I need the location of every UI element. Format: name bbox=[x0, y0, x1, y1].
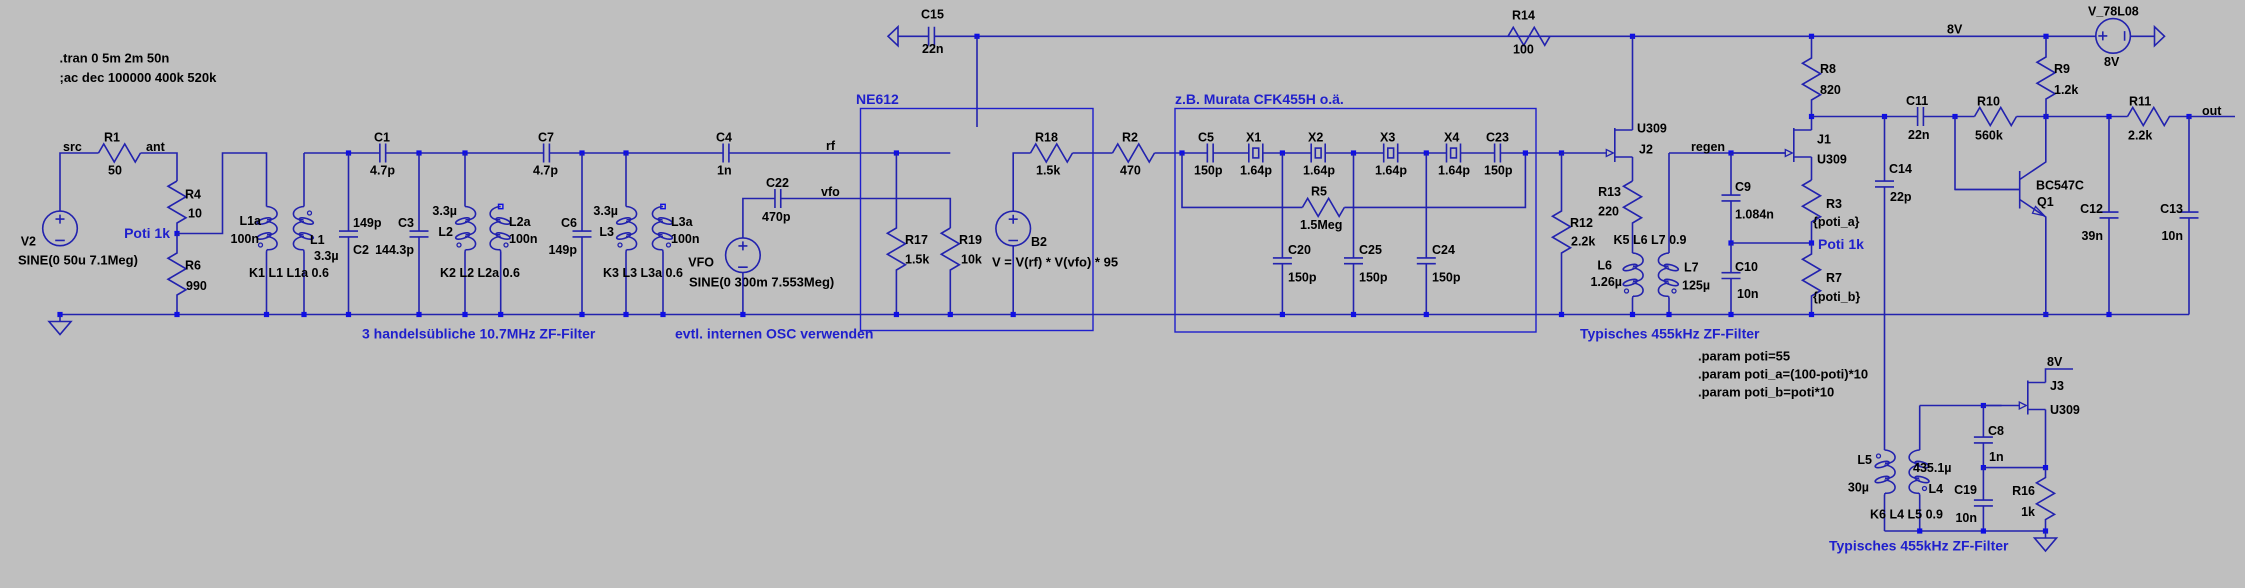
capacitor C2 bbox=[346, 150, 351, 155]
capacitor C6 bbox=[579, 150, 584, 155]
svg-text:C20: C20 bbox=[1288, 243, 1311, 257]
capacitor C12 bbox=[2100, 117, 2119, 315]
wire B2 bottom to rail bbox=[1012, 246, 1014, 315]
svg-text:C4: C4 bbox=[716, 131, 732, 145]
svg-text:1.26µ: 1.26µ bbox=[1590, 275, 1622, 289]
resistor R18 bbox=[1031, 144, 1073, 162]
svg-text:990: 990 bbox=[186, 279, 207, 293]
svg-text:C15: C15 bbox=[921, 8, 944, 22]
capacitor C10 bbox=[1722, 243, 1741, 315]
svg-text:39n: 39n bbox=[2081, 229, 2103, 243]
node junction ground rail bbox=[1630, 312, 1635, 317]
svg-text:J3: J3 bbox=[2050, 379, 2064, 393]
svg-text:B2: B2 bbox=[1031, 235, 1047, 249]
wire J3 source to R16 bbox=[2045, 410, 2047, 468]
svg-text:C5: C5 bbox=[1198, 131, 1214, 145]
node junction ground rail bbox=[1351, 312, 1356, 317]
capacitor C5 bbox=[1207, 144, 1213, 163]
node junction C20 bbox=[1280, 150, 1285, 155]
wire out bbox=[2189, 116, 2235, 118]
node junction C8 top bbox=[1981, 403, 1986, 408]
svg-text:L1: L1 bbox=[310, 233, 325, 247]
svg-text:{poti_a}: {poti_a} bbox=[1813, 215, 1860, 229]
svg-text:K2 L2 L2a 0.6: K2 L2 L2a 0.6 bbox=[440, 266, 520, 280]
svg-text:out: out bbox=[2202, 104, 2222, 118]
svg-text:L3a: L3a bbox=[671, 215, 694, 229]
resistor R19 bbox=[941, 228, 959, 315]
svg-text:R10: R10 bbox=[1977, 95, 2000, 109]
transistor Q1 BC547C bbox=[1955, 117, 2046, 315]
svg-text:8V: 8V bbox=[2104, 55, 2120, 69]
capacitor C14 bbox=[1875, 117, 1894, 451]
svg-text:150p: 150p bbox=[1484, 164, 1513, 178]
svg-text:X3: X3 bbox=[1380, 131, 1395, 145]
svg-text:R3: R3 bbox=[1826, 197, 1842, 211]
node junction filter input bbox=[1179, 150, 1184, 155]
svg-text:1n: 1n bbox=[1989, 450, 2004, 464]
svg-text:K5 L6 L7 0.9: K5 L6 L7 0.9 bbox=[1614, 233, 1687, 247]
svg-text:{poti_b}: {poti_b} bbox=[1813, 290, 1860, 304]
wire X2 to X3 bbox=[1325, 152, 1384, 154]
svg-text:C19: C19 bbox=[1954, 483, 1977, 497]
inductor L2a bbox=[499, 204, 503, 208]
net port arrow right of V_78L08 bbox=[2155, 27, 2165, 46]
capacitor C4 bbox=[723, 144, 729, 163]
inductor L1a bbox=[267, 207, 278, 252]
wire X4 to C23 bbox=[1461, 152, 1495, 154]
node junction R3/R7/Poti bbox=[1809, 240, 1814, 245]
voltage source VFO bbox=[726, 238, 761, 273]
wire L4 top to J3 gate bbox=[1920, 405, 2002, 407]
svg-text:X2: X2 bbox=[1308, 131, 1323, 145]
node junction ground rail bbox=[416, 312, 421, 317]
capacitor C20 bbox=[1273, 153, 1292, 315]
svg-text:K3 L3 L3a 0.6: K3 L3 L3a 0.6 bbox=[603, 266, 683, 280]
svg-text:1.084n: 1.084n bbox=[1735, 208, 1774, 222]
node junction C9/regen bbox=[1728, 150, 1733, 155]
svg-text:V2: V2 bbox=[21, 235, 36, 249]
svg-text:10n: 10n bbox=[1955, 511, 1977, 525]
wire R10 to R11 bbox=[2017, 116, 2128, 118]
svg-text:C25: C25 bbox=[1359, 243, 1382, 257]
svg-text:Poti 1k: Poti 1k bbox=[1818, 236, 1864, 252]
svg-text:100n: 100n bbox=[509, 232, 538, 246]
svg-text:L3: L3 bbox=[599, 225, 614, 239]
svg-text:1.5k: 1.5k bbox=[905, 253, 929, 267]
svg-text:C22: C22 bbox=[766, 176, 789, 190]
svg-text:C2: C2 bbox=[353, 243, 369, 257]
wire feedback left drop bbox=[1182, 153, 1302, 207]
svg-text:J1: J1 bbox=[1817, 133, 1831, 147]
wire bottom filter rail bbox=[1885, 530, 2046, 532]
svg-text:SINE(0 50u 7.1Meg): SINE(0 50u 7.1Meg) bbox=[18, 253, 138, 268]
node junction ground rail bbox=[301, 312, 306, 317]
inductor L6 bbox=[1633, 253, 1644, 298]
svg-text:V_78L08: V_78L08 bbox=[2088, 5, 2139, 19]
node junction R12 bbox=[1559, 150, 1564, 155]
svg-text:100n: 100n bbox=[231, 232, 260, 246]
svg-text:3.3µ: 3.3µ bbox=[593, 204, 618, 218]
node junction R17/rf bbox=[894, 150, 899, 155]
node junction ground rail bbox=[1666, 312, 1671, 317]
svg-text:R13: R13 bbox=[1598, 185, 1621, 199]
wire J2 source to R13 bbox=[1632, 157, 1634, 181]
svg-text:8V: 8V bbox=[2047, 355, 2063, 369]
wire Poti node to L1a top bbox=[177, 153, 267, 234]
svg-text:1.64p: 1.64p bbox=[1375, 164, 1407, 178]
resistor R10 bbox=[1975, 108, 2017, 126]
svg-text:R5: R5 bbox=[1311, 185, 1327, 199]
svg-text:1.2k: 1.2k bbox=[2054, 83, 2078, 97]
inductor L3a bbox=[661, 204, 665, 208]
wire C5 to X1 bbox=[1213, 152, 1249, 154]
svg-text:C7: C7 bbox=[538, 131, 554, 145]
svg-text:150p: 150p bbox=[1288, 271, 1317, 285]
svg-text:C11: C11 bbox=[1906, 94, 1928, 108]
node junction ground rail bbox=[1559, 312, 1564, 317]
svg-text:L1a: L1a bbox=[239, 214, 262, 228]
svg-text:C1: C1 bbox=[374, 131, 390, 145]
wire vfo line bbox=[781, 199, 951, 229]
node junction R9/R10/Q1 collector bbox=[2043, 114, 2048, 119]
node junction ground rail bbox=[57, 312, 62, 317]
node junction Q1 emitter/rail bbox=[2043, 312, 2048, 317]
wire regen line bbox=[1669, 152, 1786, 154]
node junction ground rail bbox=[948, 312, 953, 317]
svg-text:U309: U309 bbox=[2050, 403, 2080, 417]
svg-text:K1 L1 L1a 0.6: K1 L1 L1a 0.6 bbox=[249, 266, 329, 280]
capacitor C13 bbox=[2180, 117, 2199, 315]
svg-text:R11: R11 bbox=[2129, 95, 2151, 109]
svg-text:Typisches 455kHz ZF-Filter: Typisches 455kHz ZF-Filter bbox=[1829, 538, 2009, 554]
svg-text:100: 100 bbox=[1513, 43, 1534, 57]
svg-text:R9: R9 bbox=[2054, 62, 2070, 76]
node junction out bbox=[2186, 114, 2191, 119]
svg-text:3.3µ: 3.3µ bbox=[432, 204, 457, 218]
svg-text:144.3p: 144.3p bbox=[375, 243, 414, 257]
svg-text:R14: R14 bbox=[1512, 9, 1535, 23]
crystal X4 bbox=[1447, 144, 1461, 163]
resistor R7 bbox=[1803, 243, 1821, 315]
wire J2 drain up bbox=[1632, 36, 1634, 130]
resistor R5 bbox=[1302, 198, 1344, 216]
svg-text:1k: 1k bbox=[2021, 505, 2035, 519]
wire C7 to C4 bbox=[549, 152, 723, 154]
svg-text:C10: C10 bbox=[1735, 260, 1758, 274]
wire X3 to X4 bbox=[1398, 152, 1447, 154]
svg-text:Typisches 455kHz ZF-Filter: Typisches 455kHz ZF-Filter bbox=[1580, 326, 1760, 342]
svg-text:R7: R7 bbox=[1826, 271, 1842, 285]
svg-text:NE612: NE612 bbox=[856, 91, 899, 107]
inductor L2 bbox=[462, 150, 467, 155]
svg-text:100n: 100n bbox=[671, 232, 700, 246]
svg-text:R19: R19 bbox=[959, 233, 982, 247]
svg-text:150p: 150p bbox=[1359, 271, 1388, 285]
capacitor C9 bbox=[1722, 153, 1741, 243]
inductor L7 bbox=[1668, 153, 1670, 253]
ground symbol bottom filter bbox=[2045, 531, 2047, 538]
node junction L4 bottom bbox=[1917, 528, 1922, 533]
wire C11 to R10 bbox=[1923, 116, 1974, 118]
node junction C24 bbox=[1424, 150, 1429, 155]
wire V2 to R1 bbox=[60, 153, 99, 211]
transistor J3 U309 bbox=[2027, 381, 2029, 415]
wire J1 drain up bbox=[1811, 117, 1813, 131]
resistor R8 bbox=[1803, 36, 1821, 116]
node junction ground rail bbox=[1809, 312, 1814, 317]
svg-text:C3: C3 bbox=[398, 216, 414, 230]
svg-text:K6 L4 L5 0.9: K6 L4 L5 0.9 bbox=[1870, 508, 1943, 522]
wire C15 branch down to NE612 bbox=[976, 36, 978, 127]
node junction C14 bbox=[1882, 114, 1887, 119]
wire C1 to C7 bbox=[386, 152, 544, 154]
svg-text:470p: 470p bbox=[762, 210, 791, 224]
node junction C25 bbox=[1351, 150, 1356, 155]
wire C4 to rf end bbox=[729, 152, 950, 154]
node junction ground rail bbox=[1280, 312, 1285, 317]
node junction ground rail bbox=[174, 312, 179, 317]
svg-text:149p: 149p bbox=[549, 243, 578, 257]
svg-text:V = V(rf) * V(vfo) * 95: V = V(rf) * V(vfo) * 95 bbox=[992, 255, 1118, 270]
svg-text:;ac dec 100000 400k 520k: ;ac dec 100000 400k 520k bbox=[60, 70, 218, 85]
wire main row L1 to C1 bbox=[304, 152, 380, 154]
wire C23 to output node bbox=[1500, 152, 1561, 154]
svg-text:150p: 150p bbox=[1432, 271, 1461, 285]
node junction R8/J1 drain bbox=[1809, 114, 1814, 119]
svg-text:C13: C13 bbox=[2160, 202, 2183, 216]
node junction ground rail bbox=[1011, 312, 1016, 317]
node junction ground rail bbox=[264, 312, 269, 317]
svg-text:1.64p: 1.64p bbox=[1240, 164, 1272, 178]
svg-text:regen: regen bbox=[1691, 140, 1725, 154]
svg-text:30µ: 30µ bbox=[1848, 481, 1869, 495]
svg-text:C23: C23 bbox=[1486, 131, 1509, 145]
box NE612 bbox=[861, 109, 1094, 331]
svg-text:1.5k: 1.5k bbox=[1036, 164, 1060, 178]
resistor R14 bbox=[1508, 27, 1550, 45]
capacitor C7 bbox=[544, 144, 550, 163]
crystal X1 bbox=[1249, 144, 1263, 163]
wire R2 to filter input bbox=[1155, 152, 1208, 154]
capacitor C1 bbox=[380, 144, 386, 163]
svg-text:VFO: VFO bbox=[688, 256, 714, 270]
wire X1 to X2 bbox=[1263, 152, 1311, 154]
svg-text:3 handelsübliche 10.7MHz ZF-Fi: 3 handelsübliche 10.7MHz ZF-Filter bbox=[362, 326, 596, 342]
resistor R11 bbox=[2128, 108, 2190, 126]
resistor R3 bbox=[1803, 180, 1821, 243]
wire B2 top to R18 bbox=[1013, 153, 1030, 211]
voltage source V_78L08 bbox=[2096, 19, 2131, 54]
voltage source V2 bbox=[43, 211, 78, 246]
node junction ground rail bbox=[346, 312, 351, 317]
node junction ground rail bbox=[1728, 312, 1733, 317]
svg-text:U309: U309 bbox=[1817, 153, 1847, 167]
svg-text:2.2k: 2.2k bbox=[2128, 129, 2152, 143]
svg-text:C24: C24 bbox=[1432, 243, 1455, 257]
svg-text:J2: J2 bbox=[1639, 143, 1653, 157]
svg-text:1.64p: 1.64p bbox=[1303, 164, 1335, 178]
svg-text:10k: 10k bbox=[961, 253, 982, 267]
svg-text:L6: L6 bbox=[1597, 259, 1612, 273]
node junction ground rail bbox=[894, 312, 899, 317]
inductor L4 bbox=[1919, 406, 1921, 451]
box Murata filter bbox=[1175, 109, 1536, 333]
node junction C15/8V rail bbox=[974, 34, 979, 39]
wire R18 to R2 bbox=[1073, 152, 1113, 154]
resistor R17 bbox=[887, 153, 905, 315]
svg-text:R1: R1 bbox=[104, 131, 120, 145]
capacitor C24 bbox=[1417, 153, 1436, 315]
resistor R12 bbox=[1553, 153, 1571, 315]
svg-text:22n: 22n bbox=[1908, 128, 1930, 142]
wire V_78L08 to arrow bbox=[2130, 35, 2154, 37]
svg-text:C6: C6 bbox=[561, 216, 577, 230]
svg-text:X1: X1 bbox=[1246, 131, 1261, 145]
node junction ground rail bbox=[2106, 312, 2111, 317]
svg-text:SINE(0 300m 7.553Meg): SINE(0 300m 7.553Meg) bbox=[689, 275, 834, 290]
svg-text:4.7p: 4.7p bbox=[370, 164, 395, 178]
svg-text:4.7p: 4.7p bbox=[533, 164, 558, 178]
svg-text:R2: R2 bbox=[1122, 131, 1138, 145]
capacitor C23 bbox=[1495, 144, 1501, 163]
node junction ground rail bbox=[740, 312, 745, 317]
svg-text:.param poti_a=(100-poti)*10: .param poti_a=(100-poti)*10 bbox=[1698, 367, 1868, 382]
svg-text:R18: R18 bbox=[1035, 131, 1058, 145]
svg-text:src: src bbox=[63, 140, 82, 154]
inductor L5 bbox=[1885, 450, 1896, 495]
svg-text:.tran 0 5m 2m 50n: .tran 0 5m 2m 50n bbox=[60, 51, 170, 66]
node junction R16 bottom bbox=[2043, 528, 2048, 533]
inductor L1 bbox=[303, 153, 305, 207]
capacitor C15 bbox=[929, 27, 935, 46]
node junction C19 bottom bbox=[1981, 528, 1986, 533]
svg-text:22p: 22p bbox=[1890, 190, 1912, 204]
resistor R9 bbox=[2037, 36, 2055, 116]
wire ant to R4 bbox=[141, 153, 178, 181]
behavioral source B2 bbox=[996, 211, 1031, 246]
node junction C8 bottom bbox=[1981, 465, 1986, 470]
svg-text:L2a: L2a bbox=[509, 215, 532, 229]
resistor R13 bbox=[1624, 181, 1642, 253]
svg-text:R6: R6 bbox=[185, 259, 201, 273]
node junction ground rail bbox=[623, 312, 628, 317]
wire J3 drain to 8V bbox=[2046, 369, 2074, 383]
capacitor C11 bbox=[1918, 107, 1924, 126]
svg-text:C8: C8 bbox=[1988, 424, 2004, 438]
svg-text:rf: rf bbox=[826, 139, 836, 153]
svg-text:C9: C9 bbox=[1735, 180, 1751, 194]
node junction filter output bbox=[1523, 150, 1528, 155]
node junction J3 source/R16 bbox=[2043, 465, 2048, 470]
transistor J1 U309 bbox=[1793, 128, 1795, 162]
wire Q1 base drop bbox=[1955, 117, 2020, 190]
node junction R8 / 8V rail bbox=[1809, 34, 1814, 39]
svg-text:Poti 1k: Poti 1k bbox=[124, 225, 170, 241]
resistor R2 bbox=[1113, 144, 1155, 162]
svg-text:2.2k: 2.2k bbox=[1571, 235, 1595, 249]
svg-text:L5: L5 bbox=[1857, 453, 1872, 467]
svg-text:L4: L4 bbox=[1929, 482, 1944, 496]
svg-text:220: 220 bbox=[1598, 205, 1619, 219]
svg-text:Q1: Q1 bbox=[2037, 195, 2054, 209]
svg-text:1.5Meg: 1.5Meg bbox=[1300, 218, 1342, 232]
node junction C12 bbox=[2106, 114, 2111, 119]
wire 8V top rail bbox=[898, 35, 929, 37]
wire row 116 to C11 bbox=[1812, 116, 1918, 118]
node junction J2 drain / 8V rail bbox=[1630, 34, 1635, 39]
resistor R1 bbox=[99, 144, 141, 162]
capacitor C3 bbox=[416, 150, 421, 155]
wire J1 source to R3 bbox=[1811, 157, 1813, 180]
node junction C11/R10/Q1 base bbox=[1952, 114, 1957, 119]
svg-text:435.1µ: 435.1µ bbox=[1913, 461, 1951, 475]
wire feedback right bbox=[1344, 153, 1525, 207]
capacitor C8 bbox=[1974, 406, 1993, 468]
node junction ground rail bbox=[498, 312, 503, 317]
svg-text:R4: R4 bbox=[185, 188, 201, 202]
capacitor C22 bbox=[775, 189, 781, 208]
svg-text:R17: R17 bbox=[905, 233, 928, 247]
wire main ground rail bbox=[60, 314, 2189, 316]
wire VFO to ground rail bbox=[742, 273, 744, 315]
node junction ground rail bbox=[579, 312, 584, 317]
crystal X3 bbox=[1384, 144, 1398, 163]
svg-text:C12: C12 bbox=[2080, 202, 2103, 216]
resistor R6 bbox=[168, 234, 186, 315]
wire C8 bottom to R16 top bbox=[1983, 467, 2045, 469]
svg-text:R12: R12 bbox=[1570, 216, 1593, 230]
wire Poti wire right bbox=[1731, 242, 1812, 244]
svg-text:10: 10 bbox=[188, 207, 202, 221]
svg-text:820: 820 bbox=[1820, 83, 1841, 97]
capacitor C19 bbox=[1974, 468, 1993, 531]
inductor L3 bbox=[623, 150, 628, 155]
node junction ground rail bbox=[462, 312, 467, 317]
svg-text:125µ: 125µ bbox=[1682, 279, 1710, 293]
svg-text:22n: 22n bbox=[922, 42, 944, 56]
capacitor C25 bbox=[1344, 153, 1363, 315]
crystal X2 bbox=[1311, 144, 1325, 163]
resistor R16 bbox=[2037, 468, 2055, 531]
svg-text:50: 50 bbox=[108, 164, 122, 178]
svg-text:evtl. internen OSC verwenden: evtl. internen OSC verwenden bbox=[675, 326, 873, 342]
svg-text:560k: 560k bbox=[1975, 129, 2003, 143]
svg-text:U309: U309 bbox=[1637, 122, 1667, 136]
svg-text:C14: C14 bbox=[1889, 162, 1912, 176]
svg-text:8V: 8V bbox=[1947, 23, 1963, 37]
svg-text:z.B. Murata CFK455H o.ä.: z.B. Murata CFK455H o.ä. bbox=[1175, 91, 1344, 107]
svg-text:3.3µ: 3.3µ bbox=[314, 249, 339, 263]
wire C22 to VFO bbox=[743, 199, 775, 238]
svg-text:149p: 149p bbox=[353, 216, 382, 230]
node junction ground rail bbox=[1424, 312, 1429, 317]
svg-text:R8: R8 bbox=[1820, 62, 1836, 76]
svg-text:X4: X4 bbox=[1444, 131, 1459, 145]
transistor J2 U309 bbox=[1614, 128, 1616, 162]
svg-text:150p: 150p bbox=[1194, 164, 1223, 178]
svg-text:10n: 10n bbox=[2161, 229, 2183, 243]
node junction Poti bbox=[174, 231, 179, 236]
svg-text:L2: L2 bbox=[438, 225, 453, 239]
svg-text:1.64p: 1.64p bbox=[1438, 164, 1470, 178]
node junction R9 / 8V rail bbox=[2043, 34, 2048, 39]
net port arrow left of C15 bbox=[888, 27, 898, 46]
svg-text:ant: ant bbox=[146, 140, 166, 154]
svg-text:L7: L7 bbox=[1684, 261, 1699, 275]
node junction C9/C10/Poti bbox=[1728, 240, 1733, 245]
svg-text:.param poti=55: .param poti=55 bbox=[1698, 349, 1790, 364]
svg-text:vfo: vfo bbox=[821, 185, 840, 199]
